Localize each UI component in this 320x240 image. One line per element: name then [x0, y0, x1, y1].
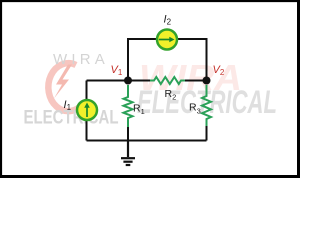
ground — [121, 141, 135, 166]
resistor R1 — [124, 85, 133, 127]
current source I2 — [157, 30, 177, 50]
wire: top loop V1 up, across, down to V2 — [128, 39, 207, 81]
wire: R3 bottom lead — [206, 126, 208, 141]
wire: R1 bottom lead — [127, 127, 129, 141]
current source I1 — [77, 100, 97, 120]
resistor R2 — [150, 77, 185, 84]
wire: middle horizontal from left branch to V1 — [87, 80, 129, 82]
resistor R3 — [202, 85, 211, 126]
wire: R2 left lead — [128, 80, 150, 82]
node V1 — [124, 77, 132, 85]
wire: R2 right lead — [185, 80, 207, 82]
wire: left branch vertical (I1) — [86, 81, 88, 141]
svg-text:WIRA: WIRA — [53, 51, 109, 68]
svg-text:ELECTRICAL: ELECTRICAL — [24, 108, 119, 129]
watermark: WIRA logo swoosh (left) — [48, 63, 83, 111]
node V2 — [203, 77, 211, 85]
wire: bottom horizontal — [87, 140, 207, 142]
